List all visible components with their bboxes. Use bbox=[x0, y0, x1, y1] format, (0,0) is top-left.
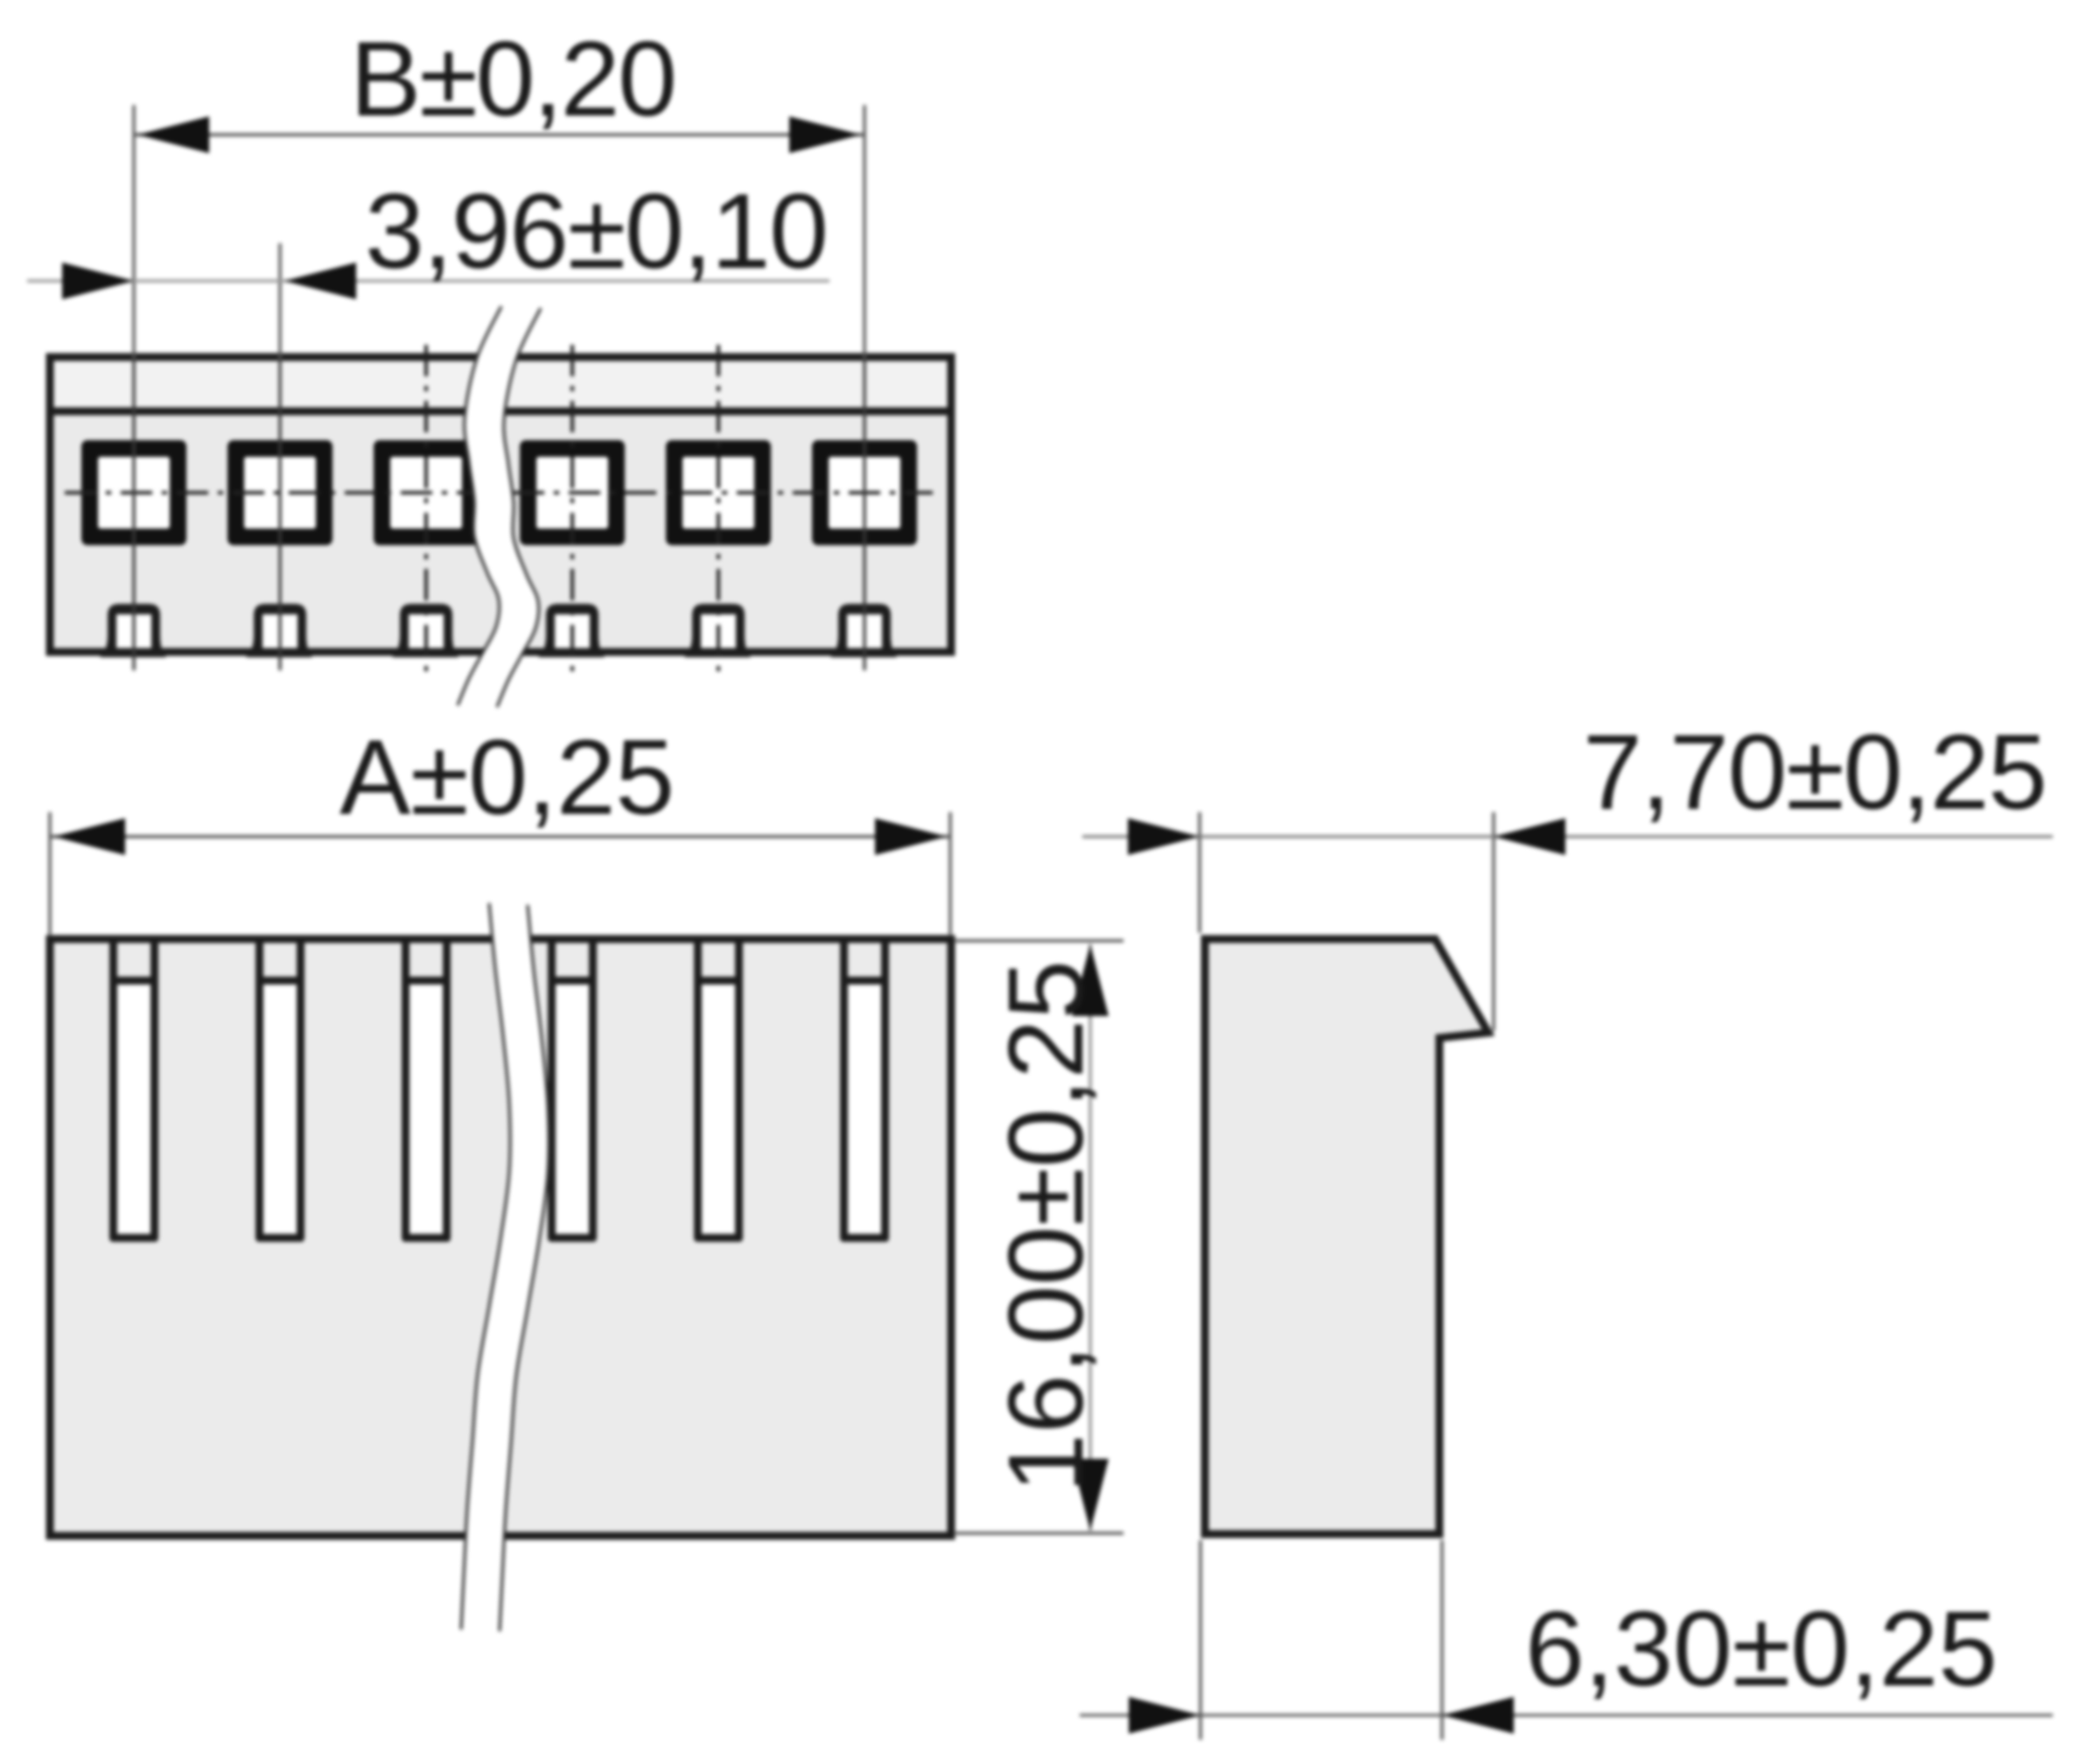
svg-text:16,00±0,25: 16,00±0,25 bbox=[986, 960, 1105, 1493]
svg-text:7,70±0,25: 7,70±0,25 bbox=[1583, 712, 2047, 831]
svg-text:B±0,20: B±0,20 bbox=[350, 19, 677, 138]
svg-text:A±0,25: A±0,25 bbox=[339, 718, 675, 837]
svg-text:3,96±0,10: 3,96±0,10 bbox=[365, 172, 829, 291]
svg-text:6,30±0,25: 6,30±0,25 bbox=[1525, 1589, 1998, 1708]
